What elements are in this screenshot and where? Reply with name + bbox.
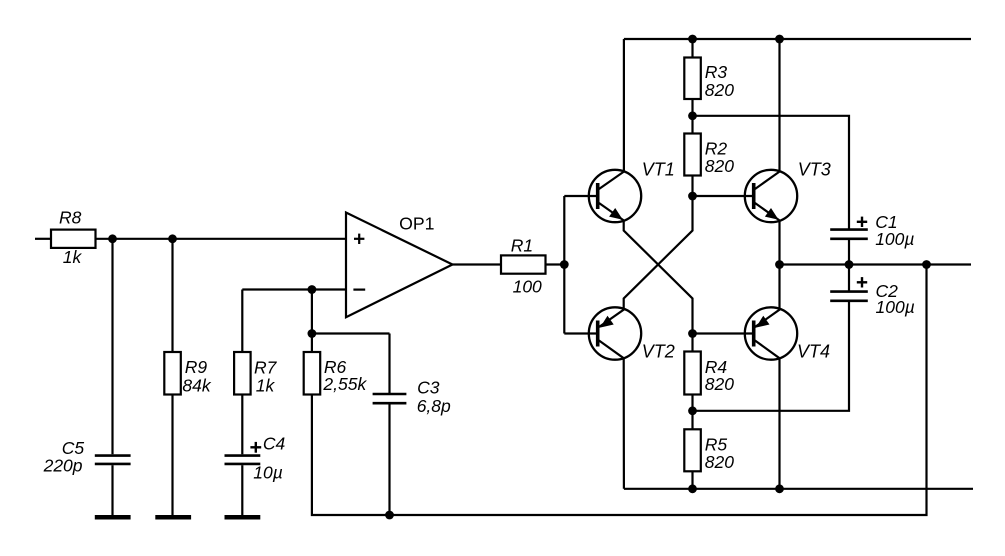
wire R3 top lead <box>691 39 693 58</box>
svg-text:100µ: 100µ <box>876 297 915 317</box>
node rail/R3 junction <box>688 35 697 44</box>
label R2 <box>705 139 728 159</box>
label C4 <box>263 434 286 454</box>
svg-text:1k: 1k <box>256 375 276 395</box>
ground R9 <box>155 515 191 520</box>
value R3 820 <box>705 80 734 100</box>
value C2 100u <box>876 297 915 317</box>
node rail/VT3 junction <box>775 35 784 44</box>
wire inverting input <box>242 288 346 290</box>
svg-text:C4: C4 <box>263 434 286 454</box>
ground C4 <box>225 515 261 520</box>
wire R4 top lead <box>691 334 693 352</box>
resistor R4 <box>684 352 701 395</box>
wire R9 branch down <box>171 239 173 352</box>
wire C5 branch down <box>111 239 113 454</box>
node VT3/VT4 output junction <box>775 260 784 269</box>
node output/feedback junction <box>922 260 931 269</box>
label R4 <box>705 357 728 377</box>
wire R8 to op-amp noninverting input <box>96 238 347 240</box>
label VT1 <box>642 160 675 180</box>
value R7 1k <box>256 375 276 395</box>
transistor VT2 base bar <box>596 321 600 347</box>
op-amp minus input symbol <box>353 289 365 291</box>
transistor VT4 emitter <box>755 265 780 328</box>
svg-text:6,8p: 6,8p <box>417 396 451 416</box>
wire R2 bottom lead <box>691 176 693 197</box>
transistor VT1 collector <box>599 39 624 189</box>
node input/C5 junction <box>108 234 117 243</box>
node R4/R5/C2 junction <box>688 406 697 415</box>
svg-text:R8: R8 <box>59 208 82 228</box>
wire R2 top lead <box>691 116 693 134</box>
label VT2 <box>642 341 675 361</box>
node rail/R5 junction <box>688 484 697 493</box>
svg-text:100: 100 <box>513 277 542 297</box>
capacitor C1 polarity plus <box>857 217 867 227</box>
value R8 1k <box>63 247 83 267</box>
node R1/base junction <box>560 260 569 269</box>
wire op-amp output <box>453 263 502 265</box>
svg-text:VT4: VT4 <box>797 342 830 362</box>
op-amp plus input symbol <box>354 234 364 244</box>
svg-text:100µ: 100µ <box>875 229 914 249</box>
label VT4 <box>797 342 830 362</box>
transistor VT3 collector <box>755 39 780 189</box>
wire R6 to feedback rail <box>312 395 390 516</box>
label R7 <box>254 358 278 378</box>
wire to VT2 base <box>564 332 596 334</box>
svg-text:820: 820 <box>705 156 734 176</box>
svg-text:C3: C3 <box>417 378 440 398</box>
label R5 <box>705 434 728 454</box>
label R1 <box>511 236 533 256</box>
node R3/R2/C1 junction <box>688 111 697 120</box>
wire C5 to ground <box>111 465 113 515</box>
transistor VT1 emitter <box>599 203 693 334</box>
wire C1 bottom lead <box>848 239 850 265</box>
wire R9 to ground <box>171 395 173 516</box>
label C1 <box>875 212 897 232</box>
resistor R5 <box>684 429 701 471</box>
svg-text:820: 820 <box>705 374 734 394</box>
label C2 <box>876 281 899 301</box>
svg-text:R9: R9 <box>185 357 208 377</box>
svg-text:R1: R1 <box>511 236 533 256</box>
wire R6 branch down <box>311 290 313 353</box>
capacitor C4 polarity plus <box>250 442 261 453</box>
transistor VT4 base bar <box>752 321 756 347</box>
svg-text:10µ: 10µ <box>253 462 283 482</box>
svg-text:VT2: VT2 <box>642 341 675 361</box>
capacitor C3 <box>373 394 407 403</box>
value R1 100 <box>513 277 542 297</box>
wire to VT4 base <box>693 332 753 334</box>
label R3 <box>705 62 728 82</box>
transistor VT3 emitter arrow <box>765 208 779 220</box>
value C5 220p <box>43 456 83 476</box>
resistor R1 <box>501 255 546 273</box>
wire junction to C2 <box>693 302 850 411</box>
wire C2 top lead <box>848 265 850 292</box>
wire R4 bottom lead <box>691 395 693 411</box>
transistor VT3 base bar <box>752 183 756 209</box>
svg-text:1k: 1k <box>63 247 83 267</box>
svg-text:220p: 220p <box>43 456 83 476</box>
value R5 820 <box>705 452 734 472</box>
label C5 <box>62 438 85 458</box>
wire to VT3 base <box>693 195 753 197</box>
node VT4 base/R4 junction <box>688 329 697 338</box>
op-amp OP1 triangle <box>346 213 453 318</box>
negative supply rail <box>624 488 973 490</box>
capacitor C1 <box>830 230 868 239</box>
label R8 <box>59 208 82 228</box>
resistor R3 <box>684 58 701 100</box>
resistor R2 <box>684 134 701 176</box>
value R6 2,55k <box>322 374 367 394</box>
wire C3 bottom lead <box>388 403 390 515</box>
transistor VT4 collector <box>755 341 780 489</box>
transistor VT3 emitter <box>755 203 780 265</box>
svg-text:OP1: OP1 <box>399 213 434 233</box>
resistor R9 <box>164 352 181 395</box>
transistor VT2 collector <box>599 341 624 489</box>
wire R3 bottom lead <box>691 99 693 116</box>
svg-text:VT3: VT3 <box>798 159 831 179</box>
label C3 <box>417 378 440 398</box>
label R9 <box>185 357 208 377</box>
wire cross to VT2 emitter <box>599 196 693 327</box>
transistor VT2 emitter arrow <box>600 316 614 328</box>
transistor VT1 emitter arrow <box>609 208 623 220</box>
resistor R8 <box>51 230 96 248</box>
transistor VT4 emitter arrow <box>756 316 770 328</box>
value C4 10u <box>253 462 283 482</box>
svg-text:R3: R3 <box>705 62 728 82</box>
wire junction to C1 <box>693 116 850 230</box>
input wire <box>35 238 51 240</box>
node C3/feedback junction <box>385 511 394 520</box>
capacitor C4 <box>225 456 261 464</box>
transistor VT1 circle <box>589 170 641 222</box>
transistor VT3 circle <box>745 170 797 222</box>
node C1/C2 output junction <box>845 260 854 269</box>
capacitor C2 polarity plus <box>857 277 867 287</box>
node rail/VT4 junction <box>775 484 784 493</box>
transistor VT2 circle <box>589 307 641 359</box>
node inverting input / R6 junction <box>308 285 317 294</box>
value C1 100u <box>875 229 914 249</box>
node input/R9 junction <box>168 234 177 243</box>
wire feedback <box>390 265 927 516</box>
wire R7 to C4 <box>241 395 243 455</box>
svg-text:VT1: VT1 <box>642 160 675 180</box>
transistor VT1 base bar <box>596 183 600 209</box>
wire R5 bottom lead <box>691 471 693 489</box>
wire to VT1 base <box>564 195 596 197</box>
wire inverting to R7 <box>241 290 243 353</box>
value R2 820 <box>705 156 734 176</box>
capacitor C5 <box>95 456 131 464</box>
wire to C3 <box>312 332 390 334</box>
wire C3 top lead <box>388 334 390 395</box>
label VT3 <box>798 159 831 179</box>
node R6/C3 junction <box>308 329 317 338</box>
transistor VT4 circle <box>745 307 797 359</box>
value R9 84k <box>182 375 211 395</box>
wire R1 to bases node <box>546 263 565 265</box>
ground C5 <box>95 515 131 520</box>
output rail <box>780 263 972 265</box>
value R4 820 <box>705 374 734 394</box>
resistor R7 <box>234 352 251 395</box>
positive supply rail <box>624 38 971 40</box>
svg-text:84k: 84k <box>182 375 211 395</box>
svg-text:820: 820 <box>705 80 734 100</box>
capacitor C2 <box>830 292 868 301</box>
label OP1 <box>399 213 434 233</box>
label R6 <box>324 357 347 377</box>
wire base column <box>563 196 565 334</box>
svg-text:820: 820 <box>705 452 734 472</box>
wire C4 to ground <box>241 465 243 515</box>
node R2/VT3 base junction <box>688 192 697 201</box>
wire R5 top lead <box>691 411 693 430</box>
resistor R6 <box>304 352 321 395</box>
svg-text:2,55k: 2,55k <box>322 374 367 394</box>
value C3 6,8p <box>417 396 451 416</box>
